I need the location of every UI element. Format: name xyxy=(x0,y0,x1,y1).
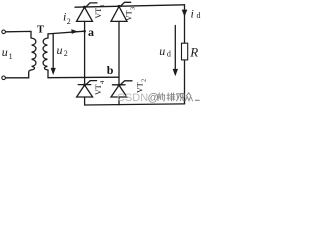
svg-text:d: d xyxy=(167,50,171,59)
wire secondary top lead xyxy=(47,34,49,38)
svg-text:2: 2 xyxy=(67,17,71,26)
label VT4 (rotated) xyxy=(94,80,106,95)
svg-text:R: R xyxy=(189,45,198,60)
transformer secondary winding xyxy=(43,38,48,70)
junction dot VT1 apex xyxy=(83,6,86,9)
label VT2 (rotated) xyxy=(136,79,148,93)
u2 arrow line xyxy=(52,34,54,68)
wire node a (i2 wire) xyxy=(48,31,85,34)
thyristor VT4 cathode bar xyxy=(78,84,91,86)
junction dot node a xyxy=(83,30,86,33)
VT2 stub to bottom rail xyxy=(118,97,120,105)
terminal bottom-left xyxy=(2,76,6,80)
top rail (+ bus) xyxy=(75,5,185,7)
svg-text:2: 2 xyxy=(64,49,68,58)
ud arrowhead xyxy=(173,69,178,76)
label VT3 (rotated) xyxy=(125,7,137,21)
right bridge leg xyxy=(118,21,120,84)
wire primary bottom lead xyxy=(6,70,32,78)
svg-text:VT: VT xyxy=(94,8,103,19)
VT3 gate xyxy=(121,2,131,6)
wire secondary bottom lead xyxy=(47,70,49,78)
junction dot VT2 apex xyxy=(118,84,121,87)
svg-text:a: a xyxy=(88,25,94,39)
svg-text:1: 1 xyxy=(99,4,106,7)
svg-text:b: b xyxy=(107,63,114,77)
VT4 gate xyxy=(86,81,96,85)
svg-text:u: u xyxy=(2,45,8,59)
svg-text:VT: VT xyxy=(94,84,103,95)
thyristor VT2 xyxy=(111,85,127,97)
label VT1 (rotated) xyxy=(94,4,106,18)
VT1 gate xyxy=(86,3,97,7)
thyristor VT2 cathode bar xyxy=(112,84,125,86)
svg-text:2: 2 xyxy=(141,79,148,82)
right wire top segment xyxy=(184,5,186,43)
svg-text:T: T xyxy=(37,25,44,36)
bottom rail (- bus) xyxy=(85,104,185,105)
svg-text:CSDN: CSDN xyxy=(117,92,148,104)
junction dot VT4 apex xyxy=(83,83,86,86)
svg-text:1: 1 xyxy=(9,52,13,61)
svg-text:u: u xyxy=(159,44,165,58)
svg-text:3: 3 xyxy=(130,7,137,10)
VT2 gate xyxy=(121,81,132,85)
svg-text:u: u xyxy=(57,43,63,57)
watermark CJK glyph blocks xyxy=(157,93,199,101)
thyristor VT3 xyxy=(111,7,127,22)
thyristor VT4 xyxy=(77,85,93,97)
wire to node b xyxy=(48,76,119,79)
svg-text:i: i xyxy=(191,7,194,21)
resistor R body xyxy=(182,43,188,60)
terminal top-left xyxy=(2,30,6,34)
ud arrow line xyxy=(174,26,176,70)
id arrowhead xyxy=(182,10,188,17)
svg-text:@: @ xyxy=(148,92,159,104)
u2 arrowhead xyxy=(51,68,56,75)
svg-text:VT: VT xyxy=(125,10,134,21)
wire primary top lead xyxy=(6,31,32,38)
left bridge leg xyxy=(84,21,86,84)
svg-text:d: d xyxy=(197,11,201,20)
transformer primary winding xyxy=(31,38,36,70)
i2 arrowhead xyxy=(71,29,78,34)
right wire bottom segment xyxy=(184,60,186,104)
thyristor VT1 xyxy=(77,7,93,21)
junction dot VT3 apex xyxy=(118,5,121,8)
VT4 stub to bottom rail xyxy=(84,97,86,105)
